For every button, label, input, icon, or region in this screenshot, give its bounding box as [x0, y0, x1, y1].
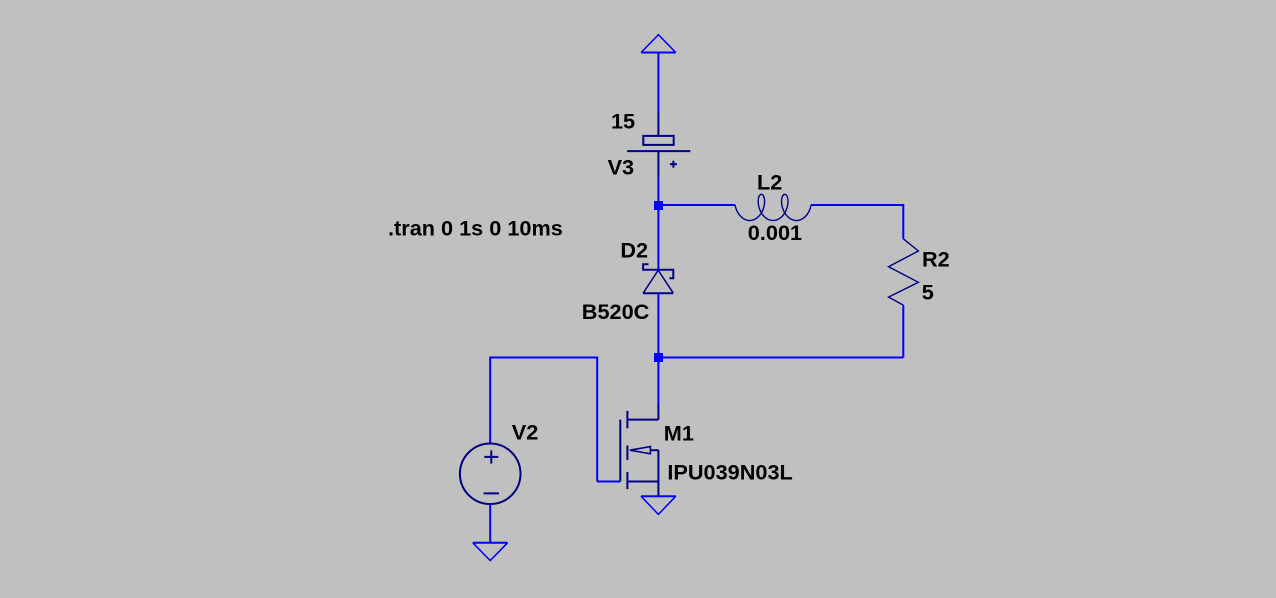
wire to M1 gate	[597, 481, 620, 483]
node B junction	[654, 353, 663, 362]
wire L2 to top-right corner	[811, 204, 903, 206]
svg-text:B520C: B520C	[582, 299, 650, 324]
svg-text:.tran 0 1s 0 10ms: .tran 0 1s 0 10ms	[388, 215, 563, 240]
wire gate vertical	[596, 357, 598, 482]
wire node A to inductor L2	[660, 204, 735, 206]
svg-text:L2: L2	[757, 169, 782, 194]
wire node B down to M1 drain	[657, 358, 659, 407]
svg-text:V2: V2	[512, 420, 539, 445]
resistor R2 zigzag	[889, 239, 919, 305]
ground flag under M1	[641, 496, 676, 514]
power flag (top, output of V3)	[641, 35, 676, 53]
wire V2 top corner to gate runs	[490, 357, 597, 359]
nmos transistor M1	[620, 405, 658, 496]
svg-text:M1: M1	[664, 421, 694, 446]
voltage source V2	[460, 444, 521, 505]
wire V2 bottom to ground	[489, 504, 491, 543]
wire bottom-right corner to node B	[660, 357, 903, 359]
wire V2 plus to corner	[489, 357, 491, 444]
svg-text:15: 15	[611, 109, 635, 134]
battery V3	[627, 113, 690, 178]
inductor L2 coil	[735, 194, 811, 220]
wire corner down to R2 top	[902, 204, 904, 239]
svg-text:0.001: 0.001	[748, 220, 802, 245]
svg-text:R2: R2	[922, 247, 950, 272]
node A junction	[654, 201, 663, 210]
ground flag under V2	[473, 543, 508, 561]
wire R2 bottom to bottom-right corner	[902, 305, 904, 357]
wire node A to diode D2 cathode	[657, 205, 659, 269]
svg-text:V3: V3	[608, 155, 635, 180]
svg-text:D2: D2	[620, 237, 648, 262]
svg-text:IPU039N03L: IPU039N03L	[667, 460, 792, 485]
wire flag to V3 top pin	[657, 53, 659, 114]
wire D2 anode to node B	[657, 293, 659, 357]
diode D2 (schottky)	[643, 264, 673, 293]
M1 body-diode arrow	[630, 447, 651, 454]
svg-text:5: 5	[922, 280, 934, 305]
wire V3 bottom to node A	[657, 178, 659, 205]
